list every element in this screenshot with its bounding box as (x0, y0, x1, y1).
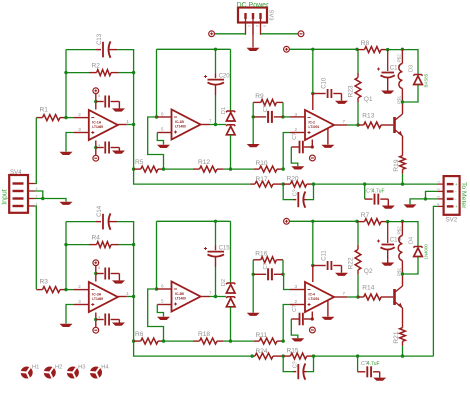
svg-text:R7: R7 (361, 212, 370, 219)
wire SV2 pin4 down (433, 206, 438, 356)
connector SV3 pin 2 (252, 13, 254, 19)
wire limiter diode bottom lead (230, 135, 232, 169)
svg-text:SV4: SV4 (10, 169, 22, 176)
junction integrator cap top (214, 48, 217, 51)
svg-text:3: 3 (295, 284, 298, 289)
wire R9 left drop (252, 102, 254, 117)
svg-text:BAS85: BAS85 (423, 73, 428, 87)
ground ref pin IC-4 (321, 317, 334, 320)
ground V+ decoupling IC-1A (112, 108, 125, 111)
resistor R20 (283, 183, 290, 185)
svg-text:1N4000: 1N4000 (423, 244, 428, 260)
wire SV4 pin1 to R3 (35, 206, 37, 289)
junction R1 op-amp input (64, 288, 67, 291)
pin 3 lead (74, 304, 89, 306)
capacitor V- decoupling IC-4 (304, 318, 313, 320)
pin 5 lead (157, 132, 171, 134)
connector SV4 pin 1 (13, 205, 24, 207)
resistor R10 (254, 168, 259, 170)
wire feedback loop top right (117, 222, 134, 245)
wire V+ decoupling leads (96, 273, 104, 275)
svg-text:5: 5 (161, 127, 164, 132)
junction IC-1A output (132, 123, 135, 126)
junction rail inductor (401, 48, 404, 51)
svg-text:R18: R18 (198, 331, 210, 338)
op-amp IC-2 (305, 110, 334, 140)
resistor R14 (358, 296, 364, 298)
junction rail to C11 (311, 220, 314, 223)
pin 2 lead IC-4 (290, 304, 305, 306)
wire pin5 to ground (157, 133, 163, 145)
wire pin5 to ground (157, 305, 163, 317)
svg-text:C?: C? (292, 133, 298, 140)
svg-text:C?: C? (263, 105, 269, 112)
wire pin3 to ground (66, 305, 74, 324)
wire feedback loop top left (66, 221, 96, 223)
mounting hole H3 (67, 367, 79, 379)
svg-text:+: + (455, 182, 458, 187)
supply V- at IC-4 (310, 327, 316, 333)
pin 3 lead (74, 132, 89, 134)
junction row A right (282, 339, 285, 342)
wire row B left corner (134, 341, 251, 356)
junction feedback right (132, 243, 135, 246)
op-amp IC-1A (89, 110, 118, 140)
supply V+ at IC-3A (93, 260, 99, 266)
svg-text:2: 2 (78, 112, 81, 117)
svg-text:R4: R4 (92, 235, 101, 242)
junction rail C17 (386, 48, 389, 51)
junction R9 left (252, 115, 255, 118)
junction R20 right (312, 182, 315, 185)
diode D1 upper zener (226, 111, 235, 112)
connector SV2 box (444, 176, 460, 215)
junction row A left (132, 339, 135, 342)
junction R16 left (252, 273, 255, 276)
wire rail from V+ (290, 48, 313, 50)
junction row A right (282, 167, 285, 170)
connector SV2 pin 2 (447, 190, 454, 192)
wire limiter diode top lead (230, 49, 232, 111)
svg-text:C13: C13 (97, 33, 103, 45)
output pin 7 lead IC-1B (201, 124, 210, 126)
wire feedback loop top right (117, 50, 134, 73)
power pin 4 of IC-3A (95, 313, 97, 328)
svg-text:C14: C14 (97, 205, 103, 217)
ground C11 (335, 273, 348, 276)
wire diode bottom corner (402, 257, 418, 275)
inductor L Q2 (401, 221, 403, 235)
op-amp IC-1B (172, 110, 201, 140)
supply V+ rail IC-2 (284, 46, 290, 52)
wire SV3 pin2 to ground (252, 22, 254, 48)
wire R1 to pin2 (66, 117, 74, 119)
resistor R24 (251, 355, 256, 357)
wire output pin1 to node (127, 124, 134, 126)
resistor R13 (358, 124, 364, 126)
resistor R1 (36, 117, 42, 119)
supply V+ symbol at SV3 (209, 31, 215, 37)
wire diode bottom corner (402, 85, 418, 103)
svg-text:P$2: P$2 (396, 226, 401, 235)
svg-text:LT1469: LT1469 (92, 297, 103, 301)
wire R2 row right (119, 72, 134, 74)
diode D2 upper zener (226, 283, 235, 284)
pin 2 lead (74, 117, 89, 119)
junction V- IC-2 (311, 145, 314, 148)
svg-text:H2: H2 (55, 364, 62, 370)
resistor R5 (134, 168, 141, 170)
svg-text:R5: R5 (135, 159, 144, 166)
wire output IC-2 to base node (347, 124, 358, 126)
supply V- at IC-1A (93, 155, 99, 161)
svg-text:R11: R11 (256, 332, 268, 339)
svg-text:R3: R3 (40, 278, 49, 285)
wire integrator left vertical (156, 49, 158, 117)
resistor R7 (357, 221, 365, 223)
wire feedback loop top left (66, 49, 96, 51)
power pin bottom IC-4 (311, 312, 313, 320)
svg-text:2: 2 (437, 188, 441, 190)
svg-text:D3: D3 (408, 65, 414, 72)
wire row B left corner (134, 169, 251, 184)
wire R16 node to ground (252, 274, 254, 312)
svg-text:3: 3 (263, 25, 267, 27)
wire R2 row left (66, 72, 89, 74)
svg-text:5: 5 (161, 299, 164, 304)
wire bypass cap drop (364, 184, 366, 199)
transistor Q2 (393, 289, 396, 305)
junction SV4 pins 2-3 (41, 197, 44, 200)
ground at IC-3A pin3 (60, 324, 73, 327)
svg-text:H3: H3 (78, 364, 85, 370)
svg-text:P$1: P$1 (396, 95, 401, 104)
junction row B2 bypass cap (356, 354, 359, 357)
capacitor parallel to R16 (253, 273, 266, 275)
capacitor C17 (387, 50, 389, 71)
junction V- decoupling (94, 318, 97, 321)
power pin 8 of IC-3A (95, 265, 97, 281)
resistor R16 (253, 259, 261, 261)
capacitor C20 (215, 74, 217, 79)
capacitor V- decoupling (104, 314, 106, 326)
pin 5 lead (157, 304, 171, 306)
diode D1 lower zener (226, 125, 235, 126)
svg-text:H4: H4 (101, 364, 109, 370)
svg-text:Q2: Q2 (364, 268, 373, 275)
svg-text:R10: R10 (256, 160, 268, 167)
junction R6 right (162, 339, 165, 342)
resistor R8 (357, 49, 365, 51)
output pin 1 lead IC-1A (118, 124, 127, 126)
svg-text:7: 7 (343, 291, 346, 296)
wire pin6 feedback loop (148, 117, 164, 169)
power pin 4 of IC-1A (95, 141, 97, 156)
connector SV2 pin 3 (447, 198, 454, 200)
svg-text:LT1469: LT1469 (175, 124, 186, 128)
wire node to pin3 (283, 116, 290, 118)
capacitor V- decoupling IC-2 (304, 146, 313, 148)
svg-text:4.7uF: 4.7uF (372, 188, 385, 194)
svg-text:2: 2 (255, 25, 259, 27)
power pin 8 of IC-1A (95, 93, 97, 109)
junction feedback right (132, 71, 135, 74)
capacitor C10 (313, 93, 326, 95)
svg-text:C15: C15 (219, 246, 231, 252)
svg-text:7: 7 (343, 119, 346, 124)
wire R2 row right (119, 244, 134, 246)
ground at SV3 pin2 (247, 48, 260, 51)
svg-text:8: 8 (98, 94, 100, 98)
junction feedback left (64, 243, 67, 246)
junction base node (356, 123, 359, 126)
svg-text:R6: R6 (135, 331, 144, 338)
supply V- symbol at SV3 (298, 31, 304, 37)
ground V- decoupling IC-2 (291, 166, 304, 169)
junction rail inductor (401, 220, 404, 223)
junction R24 left (251, 354, 254, 357)
junction feedback left (64, 71, 67, 74)
capacitor C14 (96, 221, 101, 223)
wire SV4 pin3 to pin2 (35, 191, 43, 199)
svg-text:LT1469: LT1469 (92, 125, 103, 129)
svg-text:R13: R13 (362, 113, 374, 120)
svg-text:C?: C? (292, 189, 298, 196)
svg-text:1: 1 (126, 291, 129, 296)
connector SV3 pin 3 (259, 13, 261, 19)
svg-text:LT1001: LT1001 (309, 297, 320, 301)
wire cap loop right R20 (307, 184, 314, 200)
wire C10 vertical (312, 49, 314, 93)
supply V+ at IC-1A (93, 88, 99, 94)
mounting hole H2 (44, 367, 56, 379)
resistor R15 (283, 355, 290, 357)
ground V- decoupling IC-3A (112, 323, 125, 326)
svg-text:C20: C20 (219, 74, 231, 80)
svg-text:4: 4 (437, 203, 441, 205)
svg-text:R1: R1 (40, 106, 49, 113)
junction SV2 pin2-3 (424, 197, 427, 200)
svg-text:R19: R19 (393, 159, 400, 171)
wire integrator top (157, 220, 231, 222)
resistor R2 (89, 72, 97, 74)
svg-text:LT1001: LT1001 (309, 125, 320, 129)
junction V+ decoupling (94, 100, 97, 103)
ground at IC-1B pin5 (157, 145, 170, 148)
wire rail to diode corner (388, 222, 418, 247)
wire SV4 pin4 to R1 (35, 118, 37, 184)
diode D3 (413, 75, 422, 76)
pin 3 lead IC-4 (290, 289, 305, 291)
wire C11 vertical (312, 221, 314, 265)
wire SV2 pin3 to ground (410, 199, 438, 204)
svg-text:SV3: SV3 (268, 10, 274, 21)
wire limiter diode bottom lead (230, 307, 232, 341)
wire R9 right drop (282, 102, 284, 117)
connector SV3 pin 1 (244, 13, 246, 19)
wire output to limiter diodes (210, 296, 227, 298)
wire pin2 vertical IC-4 (283, 305, 290, 342)
wire R2 row left (66, 244, 89, 246)
svg-text:R12: R12 (198, 159, 210, 166)
ground V- decoupling IC-4 (291, 338, 304, 341)
capacitor V- decoupling (104, 142, 106, 154)
svg-text:4.7uF: 4.7uF (367, 361, 380, 367)
svg-text:R17: R17 (256, 176, 268, 183)
pin 2 lead (74, 289, 89, 291)
svg-text:R23: R23 (347, 85, 354, 97)
junction C10 (311, 92, 314, 95)
wire integrator cap lower lead (215, 95, 217, 125)
op-amp IC-4 (305, 282, 334, 312)
wire output vertical upper (133, 73, 135, 125)
svg-text:D1: D1 (221, 107, 227, 114)
capacitor parallel to R9 (253, 116, 266, 118)
svg-text:R16: R16 (255, 250, 267, 257)
wire V- decoupling leads (96, 319, 104, 321)
ground C10 (335, 101, 348, 104)
capacitor V+ decoupling (104, 268, 106, 280)
capacitor V+ decoupling (104, 96, 106, 108)
junction IC-1B output (214, 123, 217, 126)
resistor R9 (253, 101, 261, 103)
junction R15 right (312, 354, 315, 357)
supply V+ rail IC-4 (284, 218, 290, 224)
junction V- IC-4 (311, 317, 314, 320)
svg-text:8: 8 (98, 266, 100, 270)
junction integrator cap top (214, 220, 217, 223)
junction row B bypass cap (363, 182, 366, 185)
wire cap loop under R15 (283, 356, 293, 372)
svg-text:3: 3 (78, 299, 81, 304)
wire rail to diode corner (388, 50, 418, 75)
connector SV4 pin 4 (13, 182, 24, 184)
supply V- at IC-3A (93, 327, 99, 333)
wire integrator cap upper lead (215, 221, 217, 245)
svg-text:+: + (455, 204, 458, 209)
junction R1 op-amp input (64, 116, 67, 119)
connector SV2 pin 1 (447, 183, 454, 185)
junction rail R23 (355, 48, 358, 51)
wire V- decoupling leads (96, 147, 104, 149)
diode D2 lower zener (226, 297, 235, 298)
resistor R3 (36, 289, 42, 291)
wire row B to SV2 pin1 (314, 183, 439, 185)
resistor R11 (254, 340, 259, 342)
wire row A to diode node (223, 168, 231, 170)
wire SV4 pin2 to ground (35, 199, 67, 202)
svg-text:C?: C? (292, 361, 298, 368)
supply V- at IC-2 (310, 155, 316, 161)
output pin 7 lead IC-4 (334, 296, 347, 298)
wire output to limiter diodes (210, 124, 227, 126)
svg-text:R9: R9 (255, 93, 264, 100)
svg-text:1: 1 (437, 181, 441, 183)
svg-text:6: 6 (161, 284, 164, 289)
ground SV4 (60, 202, 73, 205)
ground at IC-3B pin5 (157, 317, 170, 320)
junction R16 right (281, 273, 284, 276)
ground at IC-1A pin3 (60, 152, 73, 155)
svg-text:7: 7 (209, 119, 212, 124)
wire pin3 to ground (66, 133, 74, 152)
mounting hole H4 (90, 367, 102, 379)
connector SV4 box (9, 175, 28, 213)
power pin top IC-4 (312, 266, 314, 283)
svg-text:1: 1 (248, 25, 252, 27)
capacitor C19 (387, 222, 389, 243)
pin 6 lead (157, 288, 172, 290)
svg-text:R21: R21 (393, 331, 400, 343)
wire row B2 to corner (314, 355, 434, 357)
wire row A mid (164, 340, 194, 342)
resistor R21 (402, 323, 404, 328)
wire pin6 feedback loop (148, 289, 164, 341)
svg-text:R20: R20 (287, 175, 299, 182)
ground V- decoupling IC-1A (112, 151, 125, 154)
junction IC-3A output (132, 295, 135, 298)
junction base node (356, 295, 359, 298)
junction rail R22 (355, 220, 358, 223)
wire output vertical upper (133, 245, 135, 297)
wire row A mid (164, 168, 194, 170)
svg-text:LT1469: LT1469 (175, 296, 186, 300)
junction R9 right (281, 115, 284, 118)
power pin bottom IC-2 (311, 140, 313, 148)
svg-text:R14: R14 (362, 285, 374, 292)
resistor R6 (134, 340, 141, 342)
svg-text:H1: H1 (32, 364, 39, 370)
svg-text:Q1: Q1 (364, 96, 373, 103)
connector SV2 pin 4 (447, 205, 454, 207)
junction row A diode node (229, 339, 232, 342)
wire integrator cap lower lead (215, 267, 217, 297)
svg-text:2: 2 (295, 299, 298, 304)
junction R21 bottom (401, 354, 404, 357)
wire rail mid (313, 48, 357, 50)
wire R1 to pin2 (66, 289, 74, 291)
junction IC-3B output (214, 295, 217, 298)
power pin top IC-2 (312, 94, 314, 111)
wire output IC-4 to base node (347, 296, 358, 298)
ground C17 (381, 91, 394, 94)
svg-text:R2: R2 (92, 63, 101, 70)
pin 2 lead IC-2 (290, 132, 305, 134)
ground R16 network (247, 313, 260, 316)
wire node to pin3 jog (283, 274, 290, 289)
capacitor C13 (96, 49, 101, 51)
junction collector node (401, 100, 404, 103)
svg-text:2: 2 (295, 127, 298, 132)
svg-text:R15: R15 (287, 347, 299, 354)
junction row A diode node (229, 167, 232, 170)
mounting hole H1 (21, 367, 33, 379)
junction rail C19 (386, 220, 389, 223)
wire rail mid (313, 220, 357, 222)
svg-text:To Meter: To Meter (460, 182, 467, 209)
wire R16 right drop (282, 260, 284, 275)
wire V- cap to ground IC-4 (291, 319, 298, 338)
wire feedback loop left vertical (65, 222, 67, 290)
resistor R22 (357, 221, 359, 245)
wire row A right (231, 340, 255, 342)
pin 3 lead IC-2 (290, 116, 305, 118)
wire SV3 pin3 to V- (261, 33, 299, 35)
resistor R17 (251, 183, 256, 185)
resistor R23 (357, 49, 359, 73)
wire integrator left vertical (156, 221, 158, 289)
wire output pin1 to node (127, 296, 134, 298)
